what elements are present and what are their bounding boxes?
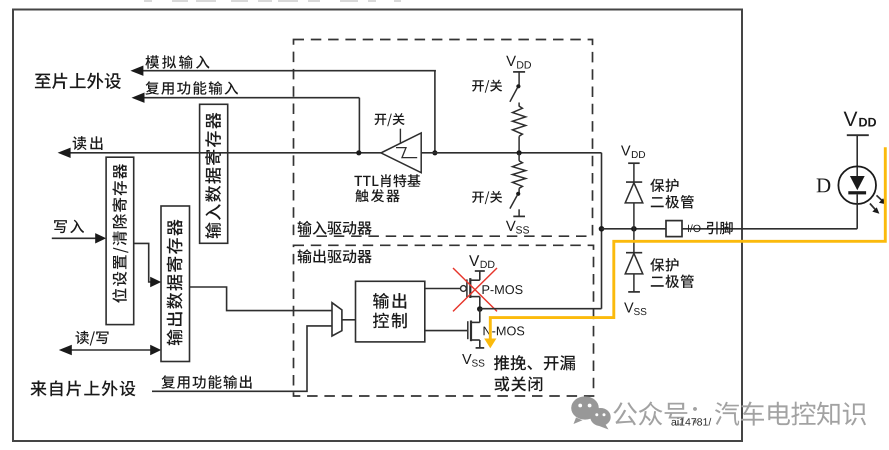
wire VDD to LED (856, 135, 858, 176)
output control box 输出控制 (356, 281, 425, 342)
yellow current path (484, 147, 885, 348)
wire output control to N-MOS gate (425, 330, 467, 332)
LED diode triangle (850, 176, 865, 190)
node diode junction (631, 226, 637, 232)
label 或关闭 (495, 376, 543, 391)
resistor pull-down R2 (513, 161, 526, 189)
external VDD symbol (844, 112, 876, 136)
wire tap to analog input (434, 71, 436, 153)
io pin square (666, 221, 682, 237)
label 开/关 top switch (472, 80, 502, 93)
label 复用功能输出 (161, 375, 251, 389)
wire read/write (59, 345, 161, 355)
input driver dashed box (294, 40, 593, 237)
red X over P-MOS (453, 268, 497, 311)
mux trapezoid (332, 303, 342, 336)
cropped text remnants top (144, 0, 401, 2)
bit set/reset register box 位设置/清除寄存器 (106, 157, 134, 324)
label TTL肖特基 (354, 174, 420, 187)
P-MOS VDD symbol (469, 255, 494, 280)
LED D1 circle (838, 166, 876, 204)
wire output register to mux (190, 287, 332, 311)
node P-MOS/N-MOS drain junction (477, 306, 483, 312)
switch on/off bottom (510, 188, 525, 216)
N-MOS VSS label (462, 354, 484, 367)
label 写入 (54, 220, 84, 234)
TTL schmitt trigger U1 (381, 129, 421, 173)
label 读/写 (76, 331, 109, 346)
protection diode D1 (625, 163, 643, 229)
node tap analog input (432, 150, 437, 155)
label 触发器 (355, 189, 399, 202)
protection diode D2 (625, 229, 643, 292)
label trigger 开/关 (375, 113, 405, 126)
wire LED cathode down (856, 194, 858, 228)
wire pad vertical (601, 153, 603, 309)
label P-MOS (483, 285, 523, 294)
wire alternate function output (152, 326, 332, 391)
transistor P-MOS (461, 278, 480, 309)
wire output control to P-MOS gate (425, 288, 461, 290)
wire read-out (58, 148, 381, 158)
label output driver 输出驱动器 (298, 249, 372, 263)
watermark wechat icon (571, 396, 611, 429)
label 来自片上外设 (31, 380, 136, 396)
output driver dashed box (294, 245, 594, 396)
label 模拟输入 (145, 55, 209, 68)
resistor pull-up R1 (513, 106, 526, 136)
label 推挽、开漏 (494, 355, 575, 370)
wire alternate function input (132, 93, 360, 103)
wire pull-up to line (518, 136, 520, 153)
pull chain VSS label (506, 221, 529, 234)
label 开/关 bottom switch (472, 191, 502, 204)
wire read-out through register (200, 152, 228, 154)
label 复用功能输入 (145, 81, 238, 95)
label 读出 (73, 136, 103, 150)
output data register box 输出数据寄存器 (161, 206, 190, 362)
node tap AF input (356, 150, 361, 155)
watermark text 公众号：汽车电控知识 (613, 402, 866, 426)
label D (817, 179, 831, 193)
label 至片上外设 (35, 73, 121, 89)
outer border frame (13, 10, 742, 442)
switch on/off top (510, 72, 521, 107)
pull chain VDD symbol (506, 56, 531, 72)
label 保护二极管 bottom (650, 258, 693, 288)
node pull junction (517, 150, 522, 155)
wire tap to alternate input (358, 98, 360, 153)
protection diode top VDD (621, 146, 645, 164)
node pad vertical junction (599, 226, 605, 232)
label 保护二极管 top (650, 179, 693, 209)
input data register box 输入数据寄存器 (200, 104, 228, 243)
label ai14781 (671, 418, 711, 426)
protection diode VSS label (624, 303, 646, 316)
label I/O引脚 (688, 222, 733, 235)
transistor N-MOS (468, 309, 484, 348)
LED emission arrows (870, 195, 886, 213)
wire trigger input line (421, 152, 601, 154)
label N-MOS (484, 326, 525, 335)
wire io line (602, 228, 858, 230)
wire analog input (130, 66, 436, 76)
wire line to pull-down (518, 153, 520, 161)
wire set/reset to output register (134, 243, 162, 287)
label input driver 输入驱动器 (298, 221, 372, 235)
LED cathode bar (848, 191, 866, 194)
wire mux to output control (342, 319, 356, 321)
wire output to pad (480, 308, 602, 310)
wire write (52, 233, 106, 243)
